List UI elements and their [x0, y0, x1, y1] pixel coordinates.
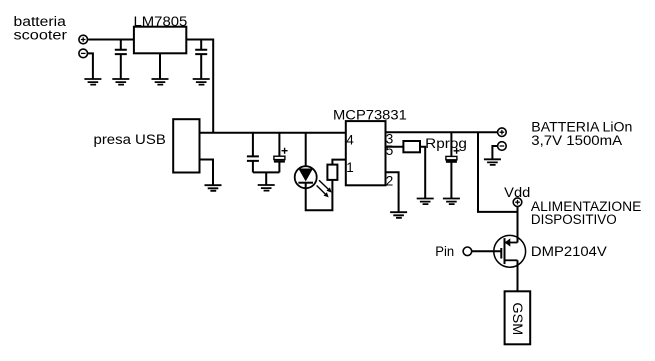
svg-text:LM7805: LM7805 [134, 14, 188, 29]
wire: LED top stem [305, 133, 307, 167]
ground (C1) [112, 79, 129, 85]
LED D1 [295, 166, 332, 197]
ground (USB) [205, 185, 222, 191]
svg-text:4: 4 [346, 132, 354, 147]
wire: output rail to battery + [386, 131, 498, 133]
wire: C2 top stem [200, 40, 202, 50]
connector J1 presa USB [173, 119, 199, 172]
wire: C3 bottom stem [252, 161, 254, 173]
wire: pin 2 to ground [386, 172, 399, 212]
capacitor C1 [115, 50, 127, 54]
wire: LM7805 ground pin [159, 53, 161, 79]
wire: LM7805 output to main rail [186, 40, 213, 133]
svg-text:Pin: Pin [435, 244, 454, 259]
resistor R2 Rprog [403, 141, 420, 152]
ground (Rprog) [417, 199, 434, 205]
wire: C5 top stem [450, 132, 452, 156]
wire: Rprog to ground [420, 147, 425, 199]
wire: main 5V rail (USB to MCP pin 4) [200, 132, 347, 134]
capacitor C4 (polarized) [274, 148, 288, 162]
wire: Pin to gate [472, 250, 501, 252]
wire: R1 top to MCP pin 1 [332, 160, 346, 165]
label BATTERIA LiOn 3,7V 1500mA [531, 120, 632, 149]
wire: Vdd to MOSFET source [517, 207, 519, 243]
terminal - (batteria scooter) [79, 49, 88, 58]
wire: C5 bottom stem [450, 162, 452, 198]
wire: rail branch to Vdd node [478, 132, 518, 212]
wire: C4 top stem [278, 133, 280, 157]
wire: pin 3 to Rprog [386, 146, 404, 148]
wire: LED bottom to R1 bottom [306, 180, 333, 210]
svg-text:DMP2104V: DMP2104V [531, 244, 607, 259]
ground (C3/C4) [258, 185, 275, 191]
svg-text:GSM: GSM [510, 302, 525, 335]
terminal + (BATTERIA LiOn) [498, 128, 507, 137]
IC U2 MCP73831 [346, 121, 386, 185]
wire: C4 bottom stem [278, 162, 280, 172]
wire: C3/C4 join to ground [253, 172, 280, 185]
svg-text:2: 2 [386, 174, 394, 189]
terminal Pin [463, 247, 472, 256]
wire: C2 bottom stem [200, 54, 202, 79]
terminal - (BATTERIA LiOn) [498, 142, 507, 151]
ground (battery minus) [84, 79, 101, 85]
capacitor C3 [247, 156, 259, 161]
node Vdd terminal [513, 198, 522, 207]
label batteria scooter [14, 14, 68, 43]
ground (LM7805) [152, 79, 169, 85]
module GSM [505, 291, 531, 344]
capacitor C2 [195, 50, 207, 54]
ground (pin 2) [390, 212, 407, 218]
wire: C3 top stem [252, 133, 254, 157]
transistor Q1 DMP2104V [494, 235, 526, 267]
wire: MOSFET drain to GSM [517, 260, 519, 291]
svg-text:presa USB: presa USB [94, 132, 166, 147]
wire: + terminal to LM7805 input [87, 39, 134, 41]
wire: C1 bottom stem [120, 54, 122, 79]
capacitor C5 (polarized) [446, 148, 460, 162]
wire: - terminal to ground [87, 53, 93, 79]
regulator U1 LM7805 [134, 27, 186, 54]
svg-text:MCP73831: MCP73831 [333, 107, 407, 122]
svg-text:1: 1 [346, 160, 354, 175]
ground (C5) [443, 199, 460, 205]
svg-text:scooter: scooter [14, 28, 68, 43]
terminal + (batteria scooter) [79, 35, 88, 44]
svg-text:Rprog: Rprog [425, 136, 467, 151]
label ALIMENTAZIONE DISPOSITIVO [531, 199, 642, 227]
svg-text:Vdd: Vdd [504, 185, 530, 200]
ground (C2) [193, 79, 210, 85]
wire: USB ground pin [200, 160, 214, 186]
wire: C1 top stem [120, 40, 122, 50]
svg-text:3,7V 1500mA: 3,7V 1500mA [531, 133, 622, 148]
svg-text:DISPOSITIVO: DISPOSITIVO [531, 212, 617, 227]
svg-text:5: 5 [386, 143, 394, 158]
wire: battery - to ground [492, 146, 497, 159]
resistor R1 [327, 165, 337, 180]
ground (battery -) [484, 159, 501, 165]
